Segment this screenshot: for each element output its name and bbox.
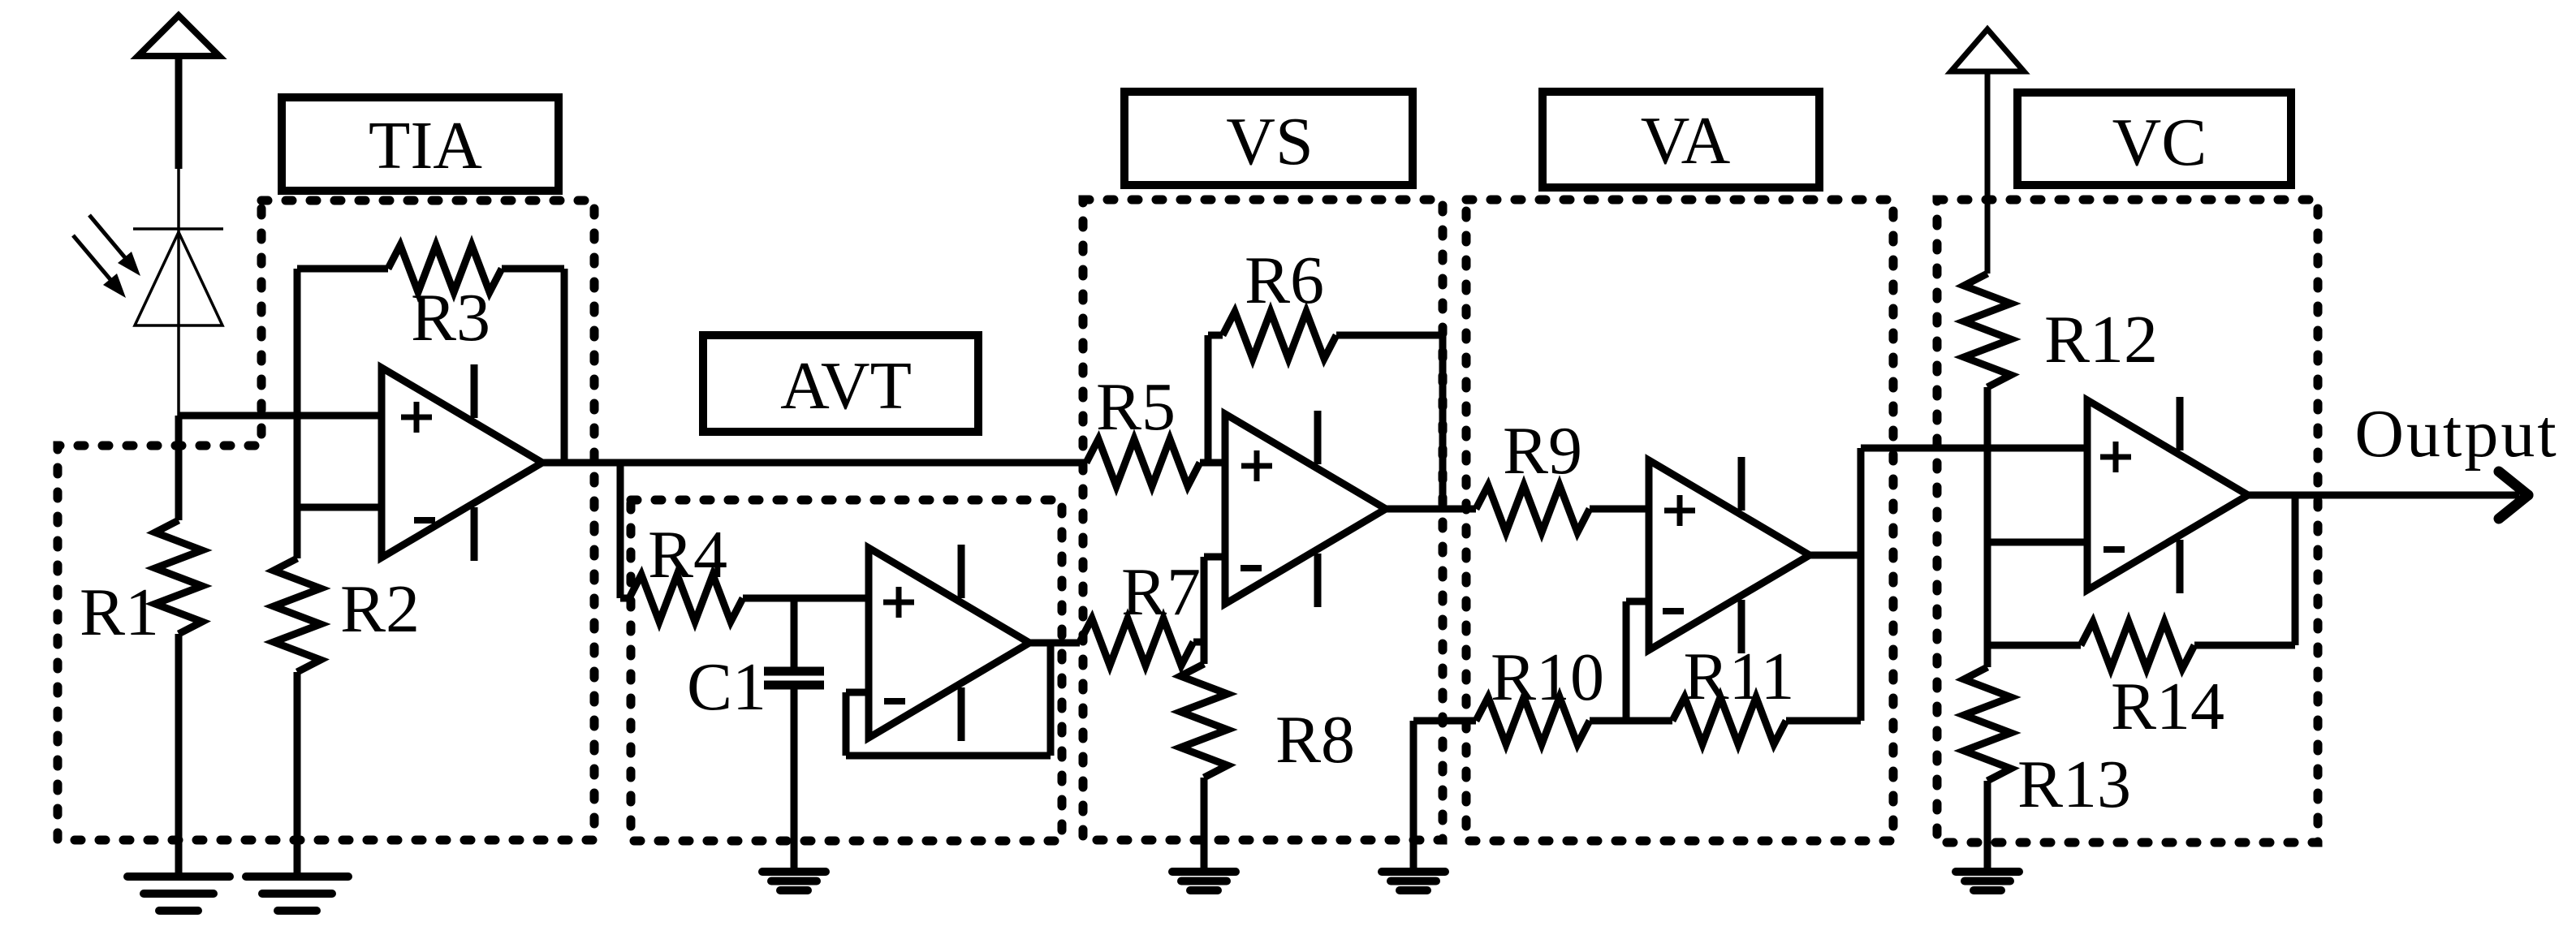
wire branch down to AVT input [617,463,624,598]
light arrow 2 into photodiode [73,235,126,298]
wire VC - input wire [1987,539,2087,546]
resistor R1 [155,520,202,634]
svg-text:R4: R4 [648,517,727,592]
svg-text:R1: R1 [80,575,159,650]
op-amp U5 - input marking [2104,546,2125,553]
op-amp U5 + input marking [2100,455,2131,460]
resistor R13 [1964,667,2011,781]
wire R3 feedback right vertical [561,269,568,463]
svg-text:R7: R7 [1121,554,1201,630]
svg-text:R14: R14 [2111,669,2224,744]
resistor R3 [388,245,502,292]
op-amp U2 (AVT buffer) [869,545,1029,741]
dashed box AVT block [631,500,1062,841]
wire R3 left vertical / inverting node [294,269,301,558]
resistor R12 [1964,274,2011,387]
op-amp U3 + input marking [1241,463,1272,469]
wire R3 left lead [297,265,388,273]
svg-text:VA: VA [1641,103,1731,179]
wire VS - node vertical [1201,557,1208,664]
svg-text:R10: R10 [1491,640,1604,715]
ground (R1) [127,877,230,911]
wire VCC to photodiode (thin) [177,169,180,416]
wire AVT - input wire [846,689,869,696]
wire AVT feedback down [1047,643,1055,756]
wire R13 bottom lead [1984,781,1991,872]
power supply VCC symbol (right) [1951,29,2024,274]
op-amp U3 (VS) [1225,411,1386,607]
svg-text:R13: R13 [2017,747,2131,822]
op-amp U2 + input marking [883,600,914,605]
op-amp U1 + input marking [401,415,432,420]
wire R9 to VA + input [1590,506,1649,513]
wire AVT output to R7 [1029,640,1080,647]
op-amp U2 - input marking [884,698,905,704]
resistor R9 [1476,485,1590,532]
wire AVT feedback up [843,692,850,756]
svg-text:R12: R12 [2044,302,2158,377]
svg-text:TIA: TIA [369,108,482,183]
svg-text:R9: R9 [1503,413,1582,489]
resistor R10 [1476,697,1590,744]
wire R4 right lead to AVT + input [743,595,869,602]
capacitor C1 [764,598,824,872]
dashed box TIA block + R1 bias network (L-shaped outline) [58,200,594,840]
wire R3 right lead [502,265,564,273]
wire R6 right vertical to VS output [1439,335,1447,509]
op-amp U4 - input marking [1663,608,1684,614]
dashed box VA block [1466,200,1893,841]
svg-text:R2: R2 [340,571,420,647]
wire VA - vertical to R10/R11 node [1623,601,1630,721]
op-amp U5 (VC) [2087,397,2248,593]
block label box AVT [703,335,978,432]
wire R10 to R11 [1590,717,1672,725]
wire VS output to R9 [1386,506,1476,513]
block label box VA [1543,92,1819,187]
wire output wire [2248,492,2519,499]
photodiode D1 [133,229,223,325]
svg-text:VC: VC [2112,105,2207,180]
op-amp U4 + input marking [1664,508,1695,514]
wire AVT feedback bottom [846,752,1051,760]
wire VS - input wire [1204,554,1225,561]
wire R1 bottom lead [175,634,183,877]
wire R12 to R13 vertical [1984,387,1991,667]
wire TIA - input wire [297,504,382,511]
wire TIA output to R5 main signal line [542,459,1086,467]
wire R14 left lead [1987,642,2081,649]
block label box VC [2017,93,2291,185]
power supply VCC symbol (left) [138,15,219,169]
ground (R2) [246,877,348,911]
wire photodiode node to TIA + input [179,412,382,420]
svg-text:AVT: AVT [780,348,912,424]
op-amp U1 (TIA) [382,364,542,561]
wire R6 left vertical [1205,335,1212,463]
block label box TIA [282,97,559,191]
op-amp U4 (VA) [1649,457,1810,653]
resistor R4 [629,575,743,622]
resistor R5 [1086,439,1200,486]
resistor R6 [1223,312,1336,359]
resistor R7 [1080,618,1193,666]
wire R14 right lead [2194,642,2295,649]
wire VA output vertical [1858,448,1865,721]
wire R6 left lead [1208,332,1223,339]
wire ground to R10 [1413,717,1476,725]
wire wire down to ground [1410,721,1417,872]
wire VA output to VC + input [1861,445,2087,452]
ground (R8) [1172,872,1236,890]
wire R5 to VS + input [1200,459,1225,467]
svg-text:Output: Output [2354,396,2558,472]
wire R8 bottom lead [1201,778,1208,872]
dashed box VC block [1937,200,2318,842]
ground (C1) [762,872,826,890]
wire R2 bottom lead [294,672,301,877]
svg-text:R8: R8 [1275,702,1355,778]
resistor R11 [1672,697,1786,744]
wire R14 right vertical to output [2292,495,2299,645]
svg-text:R5: R5 [1096,369,1176,445]
wire R6 right lead [1336,332,1443,339]
dashed box VS block [1083,200,1443,840]
svg-text:R6: R6 [1245,243,1324,318]
block label box VS [1124,92,1413,185]
resistor R2 [274,558,321,672]
wire VA output [1810,552,1861,559]
op-amp U3 - input marking [1241,565,1262,571]
svg-text:R11: R11 [1684,639,1795,714]
ground (R13) [1956,872,2019,890]
wire R11 to VA output vertical [1786,717,1861,725]
wire R7 right stub [1193,639,1204,646]
output arrowhead [2499,472,2528,519]
wire R4 left lead [620,595,629,602]
wire R1 top lead [175,416,183,520]
svg-text:R3: R3 [411,280,490,355]
svg-text:C1: C1 [687,649,766,725]
op-amp U1 - input marking [414,517,435,524]
svg-text:VS: VS [1226,104,1313,179]
resistor R14 [2081,622,2194,669]
light arrow 1 into photodiode [89,215,140,276]
wire VA - input wire [1626,598,1649,605]
ground (R10 input) [1382,872,1445,890]
resistor R8 [1180,664,1228,778]
